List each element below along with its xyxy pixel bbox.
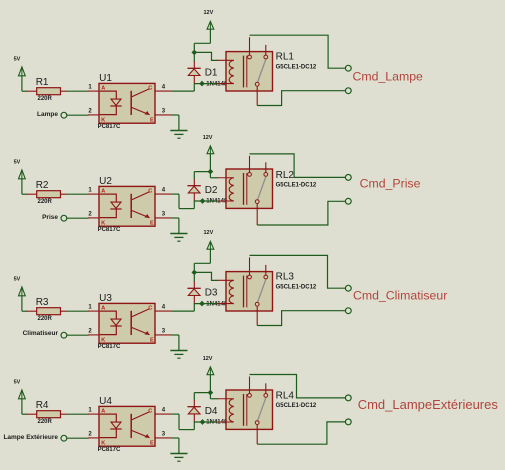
opto-coupler U4 PC817C (88, 396, 171, 453)
svg-text:RL2: RL2 (276, 170, 295, 181)
wire to relay coil+ (194, 272, 217, 280)
svg-text:5V: 5V (14, 57, 21, 63)
wire E to ground (171, 334, 179, 336)
wire 12V stem (209, 375, 211, 399)
input terminal Prise (61, 215, 67, 221)
wire junction (200, 198, 206, 204)
svg-text:RL4: RL4 (276, 391, 295, 402)
svg-text:Cmd_Lampe: Cmd_Lampe (353, 69, 424, 83)
svg-text:2: 2 (88, 211, 92, 217)
wire relay NO contact to output 2a (250, 154, 346, 178)
5V power arrow block 1 (14, 57, 26, 76)
wire terminal to U1 pin2 (67, 114, 89, 116)
wire C pin right (171, 193, 179, 195)
wire up to diode anode node (193, 201, 195, 209)
svg-text:E: E (150, 440, 154, 446)
wire relay common to output 1b (257, 91, 345, 106)
svg-text:220R: 220R (38, 419, 53, 425)
wire 5V stem (21, 399, 23, 414)
wire down to ground (178, 335, 180, 350)
svg-text:Cmd_LampeExtérieures: Cmd_LampeExtérieures (358, 397, 499, 412)
wire E to ground (171, 217, 179, 219)
diode D1 1N4148 (187, 62, 228, 88)
ground block 3 (170, 351, 187, 359)
opto-coupler U2 PC817C (88, 176, 171, 233)
wire 5V to R1 (22, 90, 27, 92)
svg-text:4: 4 (162, 85, 166, 91)
svg-text:Climatiseur: Climatiseur (23, 330, 59, 337)
svg-text:K: K (101, 117, 105, 123)
output node circle 4b (345, 419, 351, 425)
wire down to diode cathode (193, 172, 195, 180)
svg-text:4: 4 (162, 188, 166, 194)
wire junction (191, 270, 197, 276)
diode D2 1N4148 (187, 179, 228, 205)
wire 5V stem (21, 76, 23, 91)
wire 5V to R4 (22, 413, 27, 415)
wire to relay coil+ (194, 52, 217, 60)
svg-text:3: 3 (162, 212, 166, 218)
svg-text:3: 3 (162, 109, 166, 115)
svg-text:1: 1 (88, 305, 92, 311)
wire left to diode (194, 171, 210, 173)
wire C pin right (171, 413, 179, 415)
diode D3 1N4148 (187, 282, 228, 308)
svg-text:3: 3 (162, 432, 166, 438)
svg-text:1: 1 (88, 408, 92, 414)
wire E to ground (171, 437, 179, 439)
wire left to diode (194, 392, 210, 394)
wire R3 to U3 pin1 (67, 310, 89, 312)
svg-text:2: 2 (88, 108, 92, 114)
wire 5V stem (21, 296, 23, 311)
12V power arrow block 2 (203, 135, 214, 154)
wire to relay coil+ (210, 177, 217, 179)
svg-text:U2: U2 (99, 176, 112, 187)
svg-text:PC817C: PC817C (98, 344, 121, 350)
svg-text:PC817C: PC817C (98, 227, 121, 233)
wire 12V stem (209, 249, 211, 263)
relay common pin down (256, 306, 258, 325)
svg-text:5V: 5V (14, 380, 21, 386)
wire junction (200, 419, 206, 425)
ground block 4 (170, 454, 187, 462)
svg-text:Prise: Prise (42, 214, 58, 221)
svg-text:C: C (148, 85, 152, 91)
svg-text:Lampe Extérieure: Lampe Extérieure (3, 434, 58, 441)
wire to relay coil+ (210, 398, 217, 400)
svg-text:R3: R3 (36, 297, 49, 308)
wire 5V to R3 (22, 310, 27, 312)
wire down (178, 194, 180, 209)
svg-text:A: A (101, 305, 105, 311)
svg-text:1: 1 (88, 85, 92, 91)
svg-text:3: 3 (162, 329, 166, 335)
svg-text:PC817C: PC817C (98, 124, 121, 130)
wire R1 to U1 pin1 (67, 90, 89, 92)
5V power arrow block 2 (14, 160, 26, 179)
wire right under diode (179, 208, 194, 210)
relay RL1 G5CLE1-DC12 (217, 37, 273, 91)
svg-text:5V: 5V (14, 160, 21, 166)
12V power arrow block 3 (204, 230, 214, 249)
wire diode anode to coil- (194, 421, 217, 423)
relay common pin down (256, 86, 258, 105)
wire junction (191, 50, 197, 56)
wire C pin to node (171, 90, 194, 92)
wire junction (208, 169, 214, 175)
resistor R3 (27, 297, 68, 322)
svg-text:E: E (150, 337, 154, 343)
wire left (194, 42, 210, 44)
wire diode anode to coil- (194, 303, 217, 305)
svg-text:C: C (148, 305, 152, 311)
resistor R2 (27, 180, 68, 205)
svg-text:RL1: RL1 (276, 52, 295, 63)
relay common pin down (256, 425, 258, 445)
svg-text:D1: D1 (205, 67, 218, 78)
wire left (194, 262, 210, 264)
5V power arrow block 3 (14, 277, 26, 296)
svg-text:2: 2 (88, 431, 92, 437)
resistor R4 (27, 400, 68, 425)
svg-text:220R: 220R (38, 96, 53, 102)
relay RL2 G5CLE1-DC12 (217, 156, 273, 209)
input terminal Lampe Extérieure (61, 435, 67, 441)
wire E to ground (171, 114, 179, 116)
svg-text:U1: U1 (99, 73, 112, 84)
wire down to ground (178, 115, 180, 130)
svg-text:Lampe: Lampe (37, 111, 58, 118)
svg-text:1N4148: 1N4148 (206, 81, 228, 87)
svg-text:A: A (101, 408, 105, 414)
wire relay common to output 3b (257, 311, 345, 326)
wire relay NO contact to output 4a (250, 375, 346, 398)
svg-text:C: C (148, 188, 152, 194)
diode D4 1N4148 (187, 400, 228, 426)
svg-text:4: 4 (162, 305, 166, 311)
svg-text:D3: D3 (205, 287, 218, 298)
svg-text:A: A (101, 85, 105, 91)
svg-text:R1: R1 (36, 77, 49, 88)
output node circle 1a (345, 65, 351, 71)
svg-text:12V: 12V (203, 135, 213, 141)
svg-text:U4: U4 (99, 396, 112, 407)
wire terminal to U3 pin2 (67, 334, 89, 336)
wire terminal to U2 pin2 (67, 217, 89, 219)
wire junction (199, 301, 205, 307)
wire 5V stem (21, 179, 23, 194)
wire junction (199, 81, 205, 87)
wire relay common to output 2b (257, 201, 345, 225)
wire down to diode cathode (193, 393, 195, 401)
wire up to diode anode node (193, 303, 195, 311)
wire diode anode to coil- (194, 200, 217, 202)
svg-text:12V: 12V (203, 356, 213, 362)
resistor R1 (27, 77, 68, 102)
svg-text:220R: 220R (38, 316, 53, 322)
output node circle 2b (345, 198, 351, 204)
svg-text:A: A (101, 188, 105, 194)
wire down to diode cathode (193, 263, 195, 282)
wire 12V stem (209, 29, 211, 43)
input terminal Climatiseur (61, 332, 67, 338)
relay RL3 G5CLE1-DC12 (217, 257, 273, 311)
svg-text:4: 4 (162, 408, 166, 414)
wire junction (208, 390, 214, 396)
svg-text:U3: U3 (99, 293, 112, 304)
output node circle 2a (345, 175, 351, 181)
wire down to diode cathode (193, 43, 195, 62)
wire down to ground (178, 438, 180, 453)
svg-text:G5CLE1-DC12: G5CLE1-DC12 (276, 64, 317, 70)
svg-text:12V: 12V (204, 10, 214, 16)
svg-text:PC817C: PC817C (98, 447, 121, 453)
output node circle 4a (345, 395, 351, 401)
svg-text:12V: 12V (204, 230, 214, 236)
wire 12V stem (209, 154, 211, 178)
wire down (178, 414, 180, 430)
svg-text:2: 2 (88, 328, 92, 334)
svg-text:G5CLE1-DC12: G5CLE1-DC12 (276, 284, 317, 290)
wire relay NO contact to output 1a (250, 35, 346, 68)
ground block 2 (170, 234, 187, 242)
svg-text:220R: 220R (38, 199, 53, 205)
svg-text:C: C (148, 408, 152, 414)
svg-text:Cmd_Climatiseur: Cmd_Climatiseur (353, 289, 447, 303)
svg-text:K: K (101, 220, 105, 226)
wire terminal to U4 pin2 (67, 437, 89, 439)
output node circle 3a (345, 285, 351, 291)
wire R2 to U2 pin1 (67, 193, 89, 195)
svg-text:1N4148: 1N4148 (206, 420, 228, 426)
output node circle 1b (345, 88, 351, 94)
wire down to ground (178, 218, 180, 233)
wire diode anode to coil- (194, 83, 217, 85)
svg-text:RL3: RL3 (276, 272, 295, 283)
svg-text:E: E (150, 117, 154, 123)
input terminal Lampe (61, 112, 67, 118)
ground block 1 (170, 131, 187, 139)
svg-text:1: 1 (88, 188, 92, 194)
svg-text:5V: 5V (14, 277, 21, 283)
svg-text:Cmd_Prise: Cmd_Prise (360, 177, 421, 191)
svg-text:D2: D2 (205, 185, 218, 196)
relay RL4 G5CLE1-DC12 (217, 377, 273, 430)
wire up to diode anode node (193, 83, 195, 91)
wire R4 to U4 pin1 (67, 413, 89, 415)
svg-text:R4: R4 (36, 400, 49, 411)
12V power arrow block 4 (203, 356, 214, 375)
svg-text:K: K (101, 337, 105, 343)
svg-text:D4: D4 (205, 406, 218, 417)
svg-text:1N4148: 1N4148 (206, 301, 228, 307)
12V power arrow block 1 (204, 10, 214, 29)
opto-coupler U1 PC817C (88, 73, 171, 130)
svg-text:K: K (101, 440, 105, 446)
opto-coupler U3 PC817C (88, 293, 171, 350)
wire right under diode (179, 429, 194, 431)
svg-text:1N4148: 1N4148 (206, 199, 228, 205)
wire relay NO contact to output 3a (250, 255, 346, 288)
output node circle 3b (345, 308, 351, 314)
wire 5V to R2 (22, 193, 27, 195)
svg-text:G5CLE1-DC12: G5CLE1-DC12 (276, 403, 317, 409)
wire relay common to output 4b (257, 422, 345, 444)
relay common pin down (256, 204, 258, 225)
svg-text:E: E (150, 220, 154, 226)
wire C pin to node (171, 310, 194, 312)
svg-text:G5CLE1-DC12: G5CLE1-DC12 (276, 182, 317, 188)
5V power arrow block 4 (14, 380, 26, 399)
svg-text:R2: R2 (36, 180, 49, 191)
wire up to diode anode node (193, 422, 195, 430)
